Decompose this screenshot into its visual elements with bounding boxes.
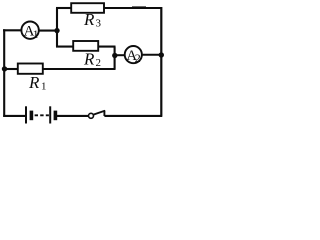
battery cell 2 long plate	[49, 106, 51, 123]
wire switch to bottom-right corner	[104, 115, 162, 117]
wire R3 to top-right corner	[104, 7, 163, 9]
switch contact tick	[103, 111, 105, 116]
battery cell 1 short thick plate	[30, 111, 34, 121]
wire A1 to node J1	[39, 30, 56, 32]
left rail wire	[3, 29, 5, 117]
svg-text:R: R	[83, 10, 95, 29]
battery cell 2 short thick plate	[54, 111, 58, 121]
wire jog artifact on top wire	[132, 6, 146, 8]
resistor R2	[73, 41, 98, 51]
svg-text:R: R	[83, 50, 95, 69]
wire from left rail to ammeter A1	[3, 29, 22, 31]
node J3 junction dot on right rail	[159, 52, 164, 57]
wire to resistor R2	[56, 46, 74, 48]
label R3	[83, 10, 102, 30]
node J2 junction dot	[112, 53, 117, 58]
wire bottom left segment	[3, 115, 26, 117]
resistor R1	[18, 64, 43, 74]
wire A2 to right rail	[142, 54, 161, 56]
wire top branch to resistor R3	[56, 7, 72, 9]
label R1	[28, 73, 47, 93]
wire battery to switch	[57, 115, 88, 117]
wire vertical through node J2 down to R1 row	[114, 47, 116, 70]
battery dashed link wire	[35, 114, 49, 116]
wire node J1 up to top branch	[56, 8, 58, 31]
wire R1 to vertical below node J2	[42, 68, 115, 70]
wire R2 to corner above node J2	[98, 46, 116, 48]
battery cell 1 long plate	[25, 106, 27, 123]
svg-text:3: 3	[96, 18, 102, 30]
svg-text:2: 2	[96, 57, 102, 69]
svg-text:1: 1	[41, 81, 47, 93]
resistor R3	[71, 3, 104, 13]
ammeter A2	[125, 46, 142, 65]
svg-text:1: 1	[33, 27, 39, 41]
svg-text:2: 2	[135, 51, 141, 65]
switch lever arm	[93, 111, 104, 115]
wire node J1 down to R2 branch	[56, 31, 58, 47]
svg-text:R: R	[28, 73, 40, 92]
node J1 junction dot	[54, 28, 59, 33]
label R2	[83, 50, 101, 70]
switch pivot circle	[89, 113, 94, 118]
right rail wire	[160, 7, 162, 117]
wire left rail to resistor R1	[4, 68, 19, 70]
wire node J2 to ammeter A2	[115, 54, 125, 56]
ammeter A1	[21, 22, 38, 41]
node J4 junction dot on left rail	[2, 66, 7, 71]
